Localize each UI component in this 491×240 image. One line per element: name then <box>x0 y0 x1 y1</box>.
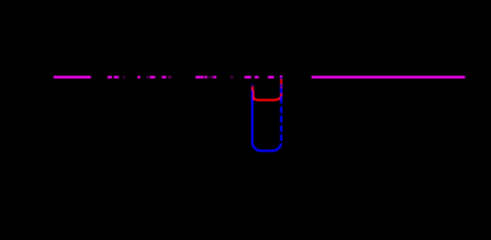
blue tube: left wall top faint start <box>251 84 253 89</box>
red meniscus edge left (blob over wall top) <box>252 86 254 90</box>
blue tube right wall: mini dash just under magenta line <box>280 77 282 78</box>
blue tube right wall: dash <box>280 88 282 94</box>
blue tube right wall: dash <box>280 134 282 141</box>
magenta surface dash at right wall <box>280 75 282 78</box>
red meniscus edge left (sliver right of wall) <box>253 90 255 100</box>
blue tube right wall: dash <box>280 96 282 103</box>
magenta liquid surface: dashed middle segment <box>108 76 275 78</box>
blue tube right wall: short dash <box>280 84 282 86</box>
blue tube right wall: dash <box>280 125 282 132</box>
magenta liquid surface: right solid segment <box>312 76 466 79</box>
magenta liquid surface: left solid segment <box>54 76 92 79</box>
blue tube right wall: dash <box>280 116 282 123</box>
blue tube right wall: dash <box>280 107 282 114</box>
red liquid level meniscus curve inside tube <box>253 97 281 100</box>
blue tube: left wall and rounded bottom (solid) <box>252 89 281 151</box>
red meniscus edge right (vertical along inner right wall, below surface level) <box>280 79 282 100</box>
